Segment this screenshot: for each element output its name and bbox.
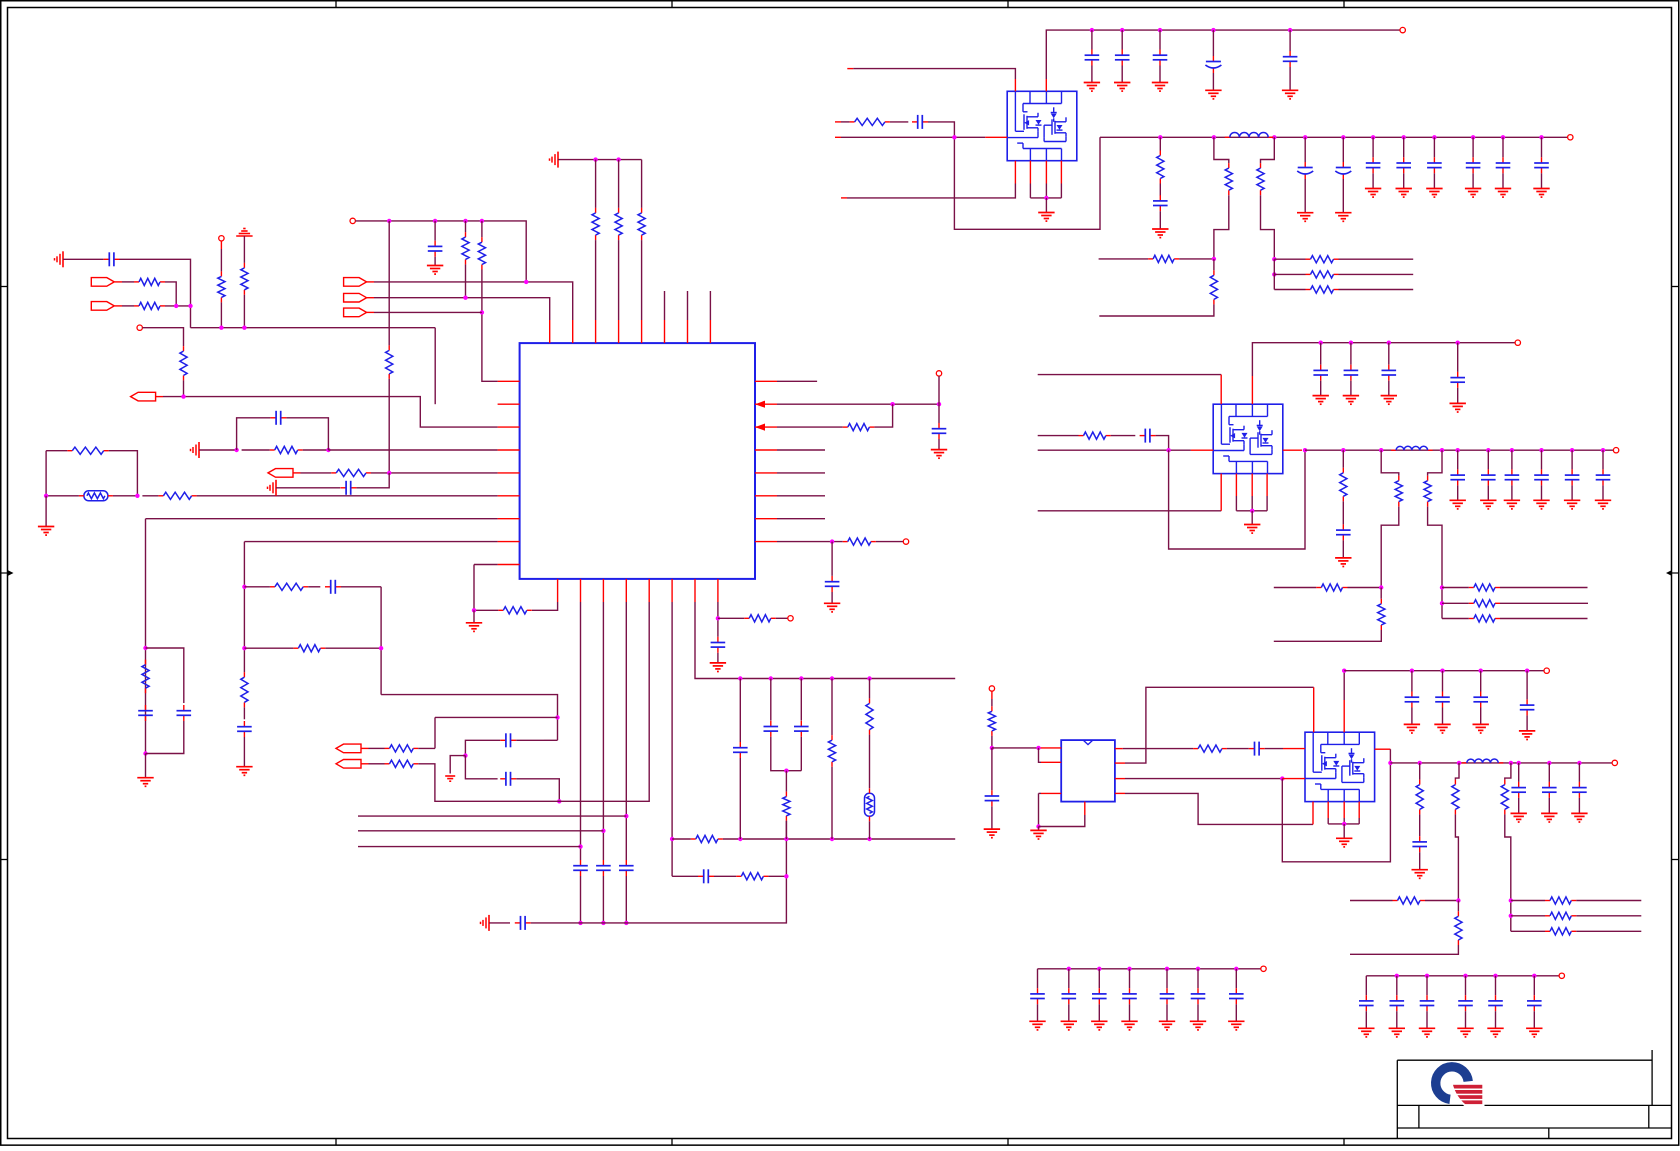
- ground GND-sw2-1457.7: [1450, 500, 1466, 509]
- resistor R8: [478, 237, 485, 269]
- resistor R29: [1157, 151, 1164, 184]
- wire W (U1 right pin1 stub): [777, 380, 817, 382]
- capacitor C-vin1160: [1153, 50, 1168, 66]
- resistor R44: [1469, 600, 1500, 607]
- wire W (bus row 678): [695, 602, 955, 679]
- wire W172 (pin lead): [1220, 474, 1222, 511]
- wire W68: [516, 779, 559, 802]
- resistor R55: [1545, 928, 1576, 935]
- wire W49: [276, 487, 340, 489]
- junction J116: [1234, 967, 1238, 971]
- capacitor C-sw2-1511.9: [1505, 469, 1520, 485]
- wire W169: [1111, 435, 1136, 437]
- wire W (divider 2 top): [1261, 137, 1275, 163]
- junction J73: [1250, 509, 1254, 513]
- capacitor C2: [428, 241, 443, 257]
- resistor R36: [1306, 286, 1339, 293]
- wire W (to crystal area): [381, 695, 557, 741]
- wire W (fb row): [1099, 258, 1149, 260]
- wire W147: [1541, 137, 1543, 157]
- wire W231: [1227, 748, 1249, 750]
- wire W195: [1571, 450, 1573, 469]
- wire W232: [1265, 748, 1283, 750]
- junction J2: [188, 304, 192, 308]
- wire W (bus row 847): [358, 846, 581, 848]
- wire W84: [714, 875, 736, 877]
- inductor L3: [1462, 759, 1504, 763]
- wire W153: [1339, 258, 1414, 260]
- wire W33: [641, 160, 643, 208]
- wire W95: [831, 767, 833, 839]
- wire W (U1 bottom pin rail x=580.5): [580, 602, 582, 860]
- capacitor C-sw1-1403.7: [1396, 157, 1411, 173]
- wire W209: [1380, 588, 1382, 599]
- wire W126 (pin lead): [835, 136, 841, 138]
- wire W194: [1541, 485, 1543, 500]
- wire W180: [1251, 511, 1253, 525]
- resistor R33: [1210, 270, 1217, 304]
- wire W251: [1419, 814, 1421, 836]
- ground GND-bA-1236.3: [1228, 1021, 1244, 1030]
- U1 pin input arrow (right row 3): [755, 424, 765, 431]
- wire W132: [1261, 195, 1275, 259]
- junction J101: [1547, 761, 1551, 765]
- resistor R21: [736, 873, 768, 880]
- resistor R-top1: [592, 208, 599, 240]
- wire W255: [1518, 763, 1520, 782]
- wire W170: [1156, 436, 1169, 451]
- wire W24 (pin lead): [367, 281, 374, 283]
- capacitor C-o2-1388.8: [1382, 365, 1397, 381]
- wire W262: [1343, 671, 1345, 700]
- wire W249: [1389, 749, 1391, 763]
- wire W217: [991, 699, 993, 706]
- wire W288: [1166, 1004, 1168, 1021]
- wire W (divider top): [1381, 450, 1399, 476]
- wire W57: [308, 586, 320, 588]
- ground GND7: [710, 663, 726, 672]
- resistor R39: [1395, 476, 1402, 507]
- port P3 (output): [131, 392, 156, 401]
- wire W (U2 pin feed low): [847, 184, 1015, 198]
- capacitor C-sw1-1473.1: [1466, 157, 1481, 173]
- wire W214: [1442, 618, 1469, 620]
- wire W30: [595, 240, 597, 320]
- junction J59: [1272, 135, 1276, 139]
- ground GND5 (small): [445, 776, 455, 781]
- wire W (cap bank A bus): [1038, 968, 1261, 970]
- wire W27: [374, 311, 482, 313]
- wire W6 (pin lead): [115, 305, 122, 307]
- wire W55: [243, 737, 245, 767]
- port P5 (input): [344, 293, 367, 302]
- junction J102: [1577, 761, 1581, 765]
- wire W271: [1425, 900, 1458, 902]
- wire W233 (pin lead): [1283, 748, 1305, 750]
- resistor R43: [1469, 584, 1500, 591]
- wire W294: [1365, 1011, 1367, 1028]
- capacitor C-sw3-1549.3: [1542, 782, 1557, 798]
- terminal T7: [1400, 27, 1405, 32]
- wire W61: [435, 716, 558, 718]
- wire W125: [890, 121, 908, 123]
- junction J90: [1440, 601, 1444, 605]
- resistor R1: [134, 278, 165, 285]
- capacitor C15: [733, 742, 748, 758]
- terminal T6: [903, 539, 908, 544]
- dual MOSFET block U5: [1305, 732, 1375, 801]
- wire W141: [1433, 137, 1435, 157]
- wire W171 (pin lead): [1191, 449, 1213, 451]
- junction J45: [867, 676, 871, 680]
- resistor R37: [1079, 432, 1111, 439]
- junction J33: [624, 814, 628, 818]
- junction J118: [1425, 974, 1429, 978]
- wire W162 (pin lead): [1045, 161, 1047, 184]
- junction J15: [44, 494, 48, 498]
- junction J31: [601, 829, 605, 833]
- wire W244 (pin lead): [1358, 802, 1360, 818]
- port P1 (input): [91, 278, 114, 287]
- junction J41: [738, 676, 742, 680]
- wire W179: [1236, 510, 1267, 512]
- ground GND4: [236, 767, 252, 776]
- junction J50: [830, 539, 834, 543]
- wire W257: [1548, 763, 1550, 782]
- capacitor C8: [500, 733, 516, 747]
- junction J89: [1440, 585, 1444, 589]
- wire W246: [1328, 823, 1359, 825]
- junction J72: [1166, 448, 1170, 452]
- wire W (U4 pin1 feed): [992, 747, 1039, 749]
- wire W39: [113, 495, 137, 497]
- junction J27: [557, 799, 561, 803]
- wire W208: [1348, 587, 1382, 589]
- title block: [1397, 1050, 1671, 1139]
- capacitor C-o3-1480.7: [1473, 692, 1488, 708]
- wire W283: [1098, 969, 1100, 988]
- wire W-net327 (to U1 pin): [191, 327, 436, 329]
- wire W155: [1339, 273, 1414, 275]
- ground GND-swc1473.1: [1465, 189, 1481, 198]
- terminal T12: [1612, 760, 1617, 765]
- wire W285: [1129, 969, 1131, 988]
- terminal T2: [219, 236, 224, 241]
- ground GND-sw2-1541.5: [1533, 500, 1549, 509]
- junction J8: [463, 219, 467, 223]
- resistor R51: [1393, 897, 1426, 904]
- wire W81: [489, 922, 510, 924]
- wire W116: [1121, 66, 1123, 83]
- wire W204: [1388, 343, 1390, 365]
- junction J78: [1456, 448, 1460, 452]
- resistor R53: [1545, 897, 1576, 904]
- wire W91: [800, 737, 802, 771]
- junction J40: [784, 874, 788, 878]
- ground GND-vin1091.9: [1084, 83, 1100, 92]
- ground GND-o3-1411.9: [1404, 724, 1420, 733]
- wire W104: [938, 439, 940, 450]
- wire W181 (pin lead): [1283, 449, 1302, 451]
- junction J46: [784, 769, 788, 773]
- junction J68: [1212, 257, 1216, 261]
- wire W207: [1457, 388, 1459, 404]
- ground GND13: [1038, 213, 1054, 222]
- junction J120: [1493, 974, 1497, 978]
- wire W154: [1274, 273, 1305, 275]
- wire W227 (pin lead): [1084, 802, 1086, 815]
- wire W (U4 out RC): [1123, 748, 1193, 750]
- ground GND-sw1305.2: [1297, 213, 1313, 222]
- wire W124: [841, 121, 850, 123]
- wire W (U1 right stub y=495.8): [777, 495, 825, 497]
- resistor R22: [783, 792, 790, 821]
- capacitor C-bA-1167: [1160, 988, 1175, 1004]
- wire W163: [1045, 184, 1047, 198]
- wire W (fb3 row): [1350, 900, 1393, 902]
- wire W5: [165, 282, 176, 306]
- wire W225: [1039, 792, 1042, 794]
- ground GND-bB-1366.3: [1358, 1028, 1374, 1037]
- junction J97: [1418, 761, 1422, 765]
- wire W296: [1396, 1011, 1398, 1028]
- wire W128: [1159, 137, 1161, 150]
- junction J104: [1410, 669, 1414, 673]
- wire W287: [1166, 969, 1168, 988]
- wire W103: [938, 404, 940, 423]
- ground GND-sw3-1518.7: [1511, 813, 1527, 822]
- wire W42: [199, 449, 237, 451]
- wire W28: [558, 159, 642, 161]
- junction J96: [1388, 761, 1392, 765]
- wire W (to U1 pin5): [371, 472, 498, 474]
- wire W (U2 top feed): [853, 69, 1015, 79]
- resistor R4: [218, 271, 225, 302]
- wire W (U1 bottom pin8 rail): [717, 602, 719, 637]
- junction J119: [1463, 974, 1467, 978]
- junction J25: [555, 715, 559, 719]
- wire W149: [1179, 258, 1214, 260]
- junction J44: [830, 676, 834, 680]
- junction J29: [578, 844, 582, 848]
- wire W (SW1 bus): [1100, 136, 1568, 138]
- wire W263: [1411, 671, 1413, 692]
- resistor R31: [1257, 163, 1264, 195]
- port P2 (input): [91, 302, 114, 311]
- wire W211: [1500, 587, 1588, 589]
- wire W302: [1495, 1011, 1497, 1028]
- main IC U1 body: [520, 343, 755, 579]
- wire W22: [465, 264, 467, 297]
- wire W34: [641, 240, 643, 320]
- wire W140: [1403, 173, 1405, 188]
- terminal T1: [137, 325, 142, 330]
- wire W19: [434, 221, 436, 241]
- junction J108: [1456, 898, 1460, 902]
- resistor R54: [1545, 912, 1576, 919]
- wire W (VIN bus): [1046, 30, 1400, 79]
- ground GND-bB-1495.5: [1487, 1028, 1503, 1037]
- port P8 (crystal): [336, 744, 361, 753]
- wire W (U3 top feed): [1038, 374, 1222, 376]
- wire W201: [1320, 381, 1322, 396]
- junction J30: [578, 921, 582, 925]
- wire W109: [831, 592, 833, 603]
- capacitor C6: [237, 721, 252, 737]
- wire W29: [595, 160, 597, 208]
- capacitor C-o2-1320.7: [1313, 365, 1328, 381]
- wire W (U1 bottom pin6 rail): [671, 602, 673, 876]
- wire W165: [1060, 184, 1062, 198]
- wire W184: [1342, 540, 1344, 558]
- wire W150: [1213, 259, 1215, 270]
- capacitor C-sw2-1488.3: [1481, 469, 1496, 485]
- wire W119: [1212, 30, 1214, 56]
- port P9 (crystal): [336, 760, 361, 769]
- capacitor C24 (series): [1140, 429, 1156, 443]
- resistor R17: [385, 745, 419, 752]
- resistor R5: [241, 263, 248, 295]
- terminal T10: [1515, 340, 1520, 345]
- wire W (conv3 top bus): [1344, 670, 1544, 672]
- wire W14: [243, 236, 245, 263]
- terminal T14: [1261, 966, 1266, 971]
- wire W274: [1576, 900, 1641, 902]
- ground GND6: [466, 623, 482, 632]
- wire W261 (pin lead): [1343, 700, 1345, 732]
- ground GND10: [1205, 90, 1221, 99]
- wire W252: [1419, 852, 1421, 870]
- wire W137: [1372, 137, 1374, 157]
- wire W69 (pin lead): [361, 747, 369, 749]
- company logo: [1436, 1067, 1485, 1106]
- wire W66: [450, 756, 465, 774]
- wire W151: [1273, 259, 1275, 289]
- wire W224 (pin lead): [1041, 792, 1061, 794]
- junction J5: [181, 394, 185, 398]
- wire W223 (pin lead): [1041, 761, 1061, 763]
- resistor R26: [843, 424, 875, 431]
- resistor R10: [158, 492, 196, 499]
- ground GND-bB-1465.5: [1457, 1028, 1473, 1037]
- wire W190: [1487, 485, 1489, 500]
- wire W120: [1212, 73, 1214, 90]
- wire W293: [1365, 976, 1367, 995]
- wire W88: [770, 679, 772, 721]
- junction J74: [1303, 448, 1307, 452]
- capacitor C11: [596, 860, 611, 876]
- wire W47 (pin lead): [293, 472, 301, 474]
- wire W73: [369, 763, 385, 765]
- junction J63: [1402, 135, 1406, 139]
- wire W11 (pin lead): [220, 241, 222, 249]
- signal ground SG3: [191, 442, 200, 458]
- wire W20: [434, 257, 436, 266]
- wire W160 (pin lead): [1029, 161, 1031, 184]
- resistor R18: [385, 760, 419, 767]
- wire W280: [1037, 1004, 1039, 1021]
- ground GND-vin1160: [1152, 83, 1168, 92]
- wire W (U2 left feed): [841, 136, 985, 138]
- wire W136: [1342, 179, 1344, 213]
- wire W76: [474, 609, 498, 611]
- wire W (left vertical rail B): [243, 542, 245, 673]
- wire W297: [1426, 976, 1428, 995]
- junction J17: [234, 448, 238, 452]
- wire W83: [672, 875, 698, 877]
- resistor R34: [1306, 256, 1339, 263]
- junction J77: [1440, 448, 1444, 452]
- wire W36: [46, 450, 67, 452]
- capacitor C30: [1520, 699, 1535, 715]
- junction J16: [135, 494, 139, 498]
- signal ground SG2: [550, 152, 559, 168]
- wire W222: [1039, 748, 1042, 762]
- wire W (U1 right pin2 net): [777, 403, 939, 405]
- resistor R46: [988, 706, 995, 736]
- resistor R13: [142, 660, 149, 694]
- wire W (U1 bottom pin rail x=626.3): [625, 602, 627, 860]
- resistor R25: [744, 615, 776, 622]
- resistor R14: [241, 672, 248, 707]
- wire W121: [1289, 30, 1291, 51]
- resistor R-top3: [638, 208, 645, 240]
- junction J57: [1158, 135, 1162, 139]
- wire W143: [1472, 137, 1474, 157]
- ground GND-o3-1480.7: [1473, 724, 1489, 733]
- junction J69: [1272, 257, 1276, 261]
- wire W (U1 right stub y=518.7): [777, 518, 825, 520]
- wire W117: [1159, 30, 1161, 49]
- junction J92: [1036, 746, 1040, 750]
- wire W89: [771, 737, 802, 771]
- wire W8: [165, 305, 191, 307]
- capacitor C-o3-1411.9: [1405, 692, 1420, 708]
- resistor R12: [331, 469, 371, 476]
- terminal T8: [1568, 135, 1573, 140]
- wire W10: [183, 380, 185, 396]
- junction J70: [1272, 272, 1276, 276]
- U1 left pins: [498, 381, 520, 564]
- capacitor C-bA-1068.8: [1062, 988, 1077, 1004]
- capacitor C-o2-1350.9: [1344, 365, 1359, 381]
- U1 bottom pins: [558, 579, 718, 602]
- capacitor C14 (series): [698, 869, 714, 883]
- resistor R52: [1455, 911, 1462, 945]
- polarized capacitor CP1: [1205, 56, 1221, 73]
- U1 top pins: [550, 320, 711, 343]
- capacitor C29: [1412, 836, 1427, 852]
- wire W (U4 to U5 top): [1125, 687, 1314, 763]
- wire W299: [1465, 976, 1467, 995]
- wire W77: [473, 610, 475, 623]
- ground GND-bB-1534.3: [1526, 1028, 1542, 1037]
- capacitor C7: [325, 580, 341, 594]
- wire W264: [1411, 708, 1413, 725]
- junction J76: [1379, 448, 1383, 452]
- junction J12: [463, 296, 467, 300]
- wire W192: [1511, 485, 1513, 500]
- wire W (U1 bottom pin rail x=603.4): [602, 602, 604, 860]
- ground GND-bA-1037.5: [1029, 1021, 1045, 1030]
- wire W142: [1433, 173, 1435, 188]
- wire W2: [120, 259, 191, 327]
- wire W (to U1 pin8): [244, 541, 497, 543]
- junction J20: [143, 646, 147, 650]
- capacitor C-bA-1037.5: [1030, 988, 1045, 1004]
- ground GND-bB-1396.8: [1389, 1028, 1405, 1037]
- wire W282: [1068, 1004, 1070, 1021]
